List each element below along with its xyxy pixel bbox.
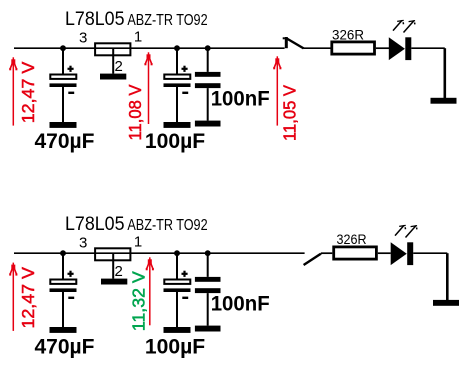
- svg-text:12,47 V: 12,47 V: [18, 267, 38, 329]
- svg-text:1: 1: [134, 28, 142, 45]
- svg-text:100µF: 100µF: [145, 129, 205, 153]
- svg-text:3: 3: [79, 235, 87, 252]
- svg-text:L78L05: L78L05: [65, 8, 125, 30]
- svg-text:L78L05: L78L05: [65, 213, 125, 235]
- svg-text:326R: 326R: [332, 27, 364, 43]
- svg-text:ABZ-TR TO92: ABZ-TR TO92: [127, 217, 207, 234]
- svg-text:ABZ-TR TO92: ABZ-TR TO92: [127, 12, 207, 29]
- svg-text:11,05 V: 11,05 V: [279, 85, 299, 141]
- svg-text:2: 2: [115, 263, 123, 280]
- svg-text:470µF: 470µF: [35, 334, 95, 358]
- svg-text:11,32 V: 11,32 V: [129, 271, 149, 331]
- svg-text:326R: 326R: [337, 231, 367, 247]
- svg-text:470µF: 470µF: [35, 129, 95, 153]
- svg-text:100µF: 100µF: [145, 334, 205, 358]
- svg-text:11,08 V: 11,08 V: [125, 84, 145, 140]
- svg-text:100nF: 100nF: [211, 87, 270, 111]
- svg-text:3: 3: [79, 30, 87, 47]
- svg-text:2: 2: [115, 58, 123, 75]
- svg-text:12,47 V: 12,47 V: [18, 61, 38, 123]
- svg-text:1: 1: [134, 233, 142, 250]
- svg-text:100nF: 100nF: [211, 292, 270, 316]
